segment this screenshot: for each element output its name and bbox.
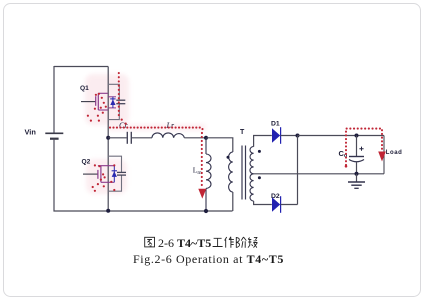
- node Lm bottom junction: [204, 209, 208, 213]
- wire left rail lower: [53, 139, 55, 212]
- label Co: [339, 149, 348, 159]
- transistor Q1: [81, 93, 108, 110]
- wire node A to transformer primary: [207, 138, 233, 152]
- svg-text:Load: Load: [386, 150, 403, 156]
- capacitor Co: [349, 136, 364, 174]
- current path down through Lm (dotted red): [201, 129, 204, 189]
- caption line 1: CJK glyph 工: [213, 238, 223, 246]
- node rectifier output junction: [296, 134, 300, 138]
- svg-text:D1: D1: [271, 121, 280, 128]
- wire bottom rail: [54, 210, 233, 212]
- wire secondary top lead to D1: [254, 136, 272, 147]
- inductor Lr: [152, 133, 184, 138]
- label Q1: [80, 85, 89, 92]
- current path loop around Q2 (dotted red): [92, 164, 116, 192]
- plus sign of Co: [359, 147, 363, 151]
- caption line 1: CJK glyph 图: [145, 237, 155, 247]
- wire top rail: [54, 66, 108, 68]
- capacitor Cr: [127, 132, 131, 144]
- caption line 1: latin part: [158, 236, 211, 250]
- label Load: [386, 150, 403, 156]
- svg-text:Lr: Lr: [166, 121, 175, 130]
- label Q2: [82, 158, 91, 165]
- caption line 1: CJK glyph 作: [225, 237, 234, 248]
- svg-text:Q2: Q2: [82, 158, 91, 165]
- diode D2: [272, 196, 281, 213]
- polarity dot secondary top: [258, 150, 261, 153]
- label T: [240, 129, 245, 136]
- svg-text:2-6 T4~T5: 2-6 T4~T5: [158, 236, 211, 250]
- node output cap bottom junction: [355, 172, 359, 176]
- wire Cr to Lr: [132, 137, 152, 139]
- snubber capacitor of Q1: [108, 84, 125, 119]
- node A junction: [204, 136, 208, 140]
- node bridge midpoint junction: [106, 136, 110, 140]
- current arrow at load: [378, 152, 386, 162]
- wire load branch: [383, 136, 385, 174]
- caption line 1: CJK glyph 阶: [236, 237, 246, 248]
- wire bridge leg: [107, 67, 109, 211]
- label Lm: [193, 166, 203, 177]
- wire left rail upper: [53, 66, 55, 133]
- label D2: [271, 193, 280, 200]
- svg-text:Fig.2-6 Operation at T4~T5: Fig.2-6 Operation at T4~T5: [133, 252, 284, 266]
- svg-text:Vin: Vin: [25, 128, 37, 137]
- inductor Lm: [206, 138, 211, 211]
- transistor Q2: [83, 166, 114, 183]
- current path resonant branch horizontal (dotted red): [110, 127, 203, 129]
- transformer T secondary winding top: [250, 147, 254, 174]
- wire center tap return rail: [254, 173, 384, 175]
- node output cap top junction: [355, 134, 359, 138]
- current arrow at Lm: [198, 189, 206, 199]
- polarity dot primary: [227, 156, 230, 159]
- svg-text:Q1: Q1: [80, 85, 89, 92]
- body diode of Q1: [108, 97, 116, 108]
- snubber capacitor of Q2: [108, 156, 126, 191]
- body diode of Q2: [112, 166, 117, 183]
- diode D1: [272, 127, 281, 144]
- label Lr: [166, 121, 175, 130]
- current path end dot at Co: [345, 165, 348, 168]
- wire Lr to node A: [184, 137, 206, 139]
- ground: [348, 174, 365, 189]
- caption line 2: [133, 252, 284, 266]
- transformer core: [242, 146, 246, 200]
- wire output positive rail: [298, 135, 385, 137]
- polarity dot secondary bottom: [258, 176, 261, 179]
- wire D1 to output junction: [281, 135, 298, 137]
- wire D2 riser to output junction: [297, 136, 299, 205]
- svg-text:T: T: [240, 129, 245, 136]
- label D1: [271, 121, 280, 128]
- battery Vin: [45, 133, 63, 138]
- node bridge bottom junction: [106, 209, 110, 213]
- transformer T secondary winding bottom: [250, 174, 254, 201]
- transformer T primary winding: [229, 152, 233, 211]
- current path loop around Q1 (dotted red): [87, 93, 107, 122]
- wire D2 to riser: [281, 204, 298, 206]
- wire secondary bottom lead to D2: [254, 201, 272, 205]
- wire midpoint to Cr: [108, 137, 127, 139]
- caption line 1: CJK glyph 段: [248, 237, 258, 247]
- label Cr: [119, 121, 128, 130]
- current path output loop (dotted red): [346, 129, 382, 165]
- label Vin: [25, 128, 37, 137]
- current path through Q1 snubber (dotted red): [119, 73, 127, 125]
